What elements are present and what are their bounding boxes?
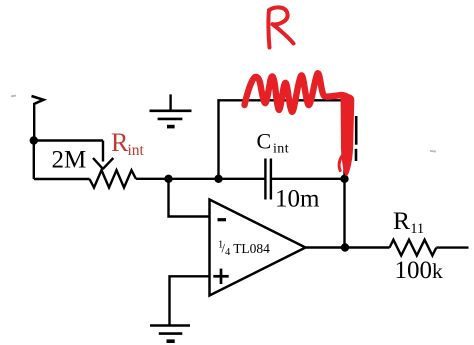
wire: input vertical into node A <box>33 103 35 141</box>
wire: wiper vertical drop <box>102 141 104 162</box>
node D junction dot <box>340 175 348 183</box>
faint artifact dash mid-right <box>430 150 436 153</box>
op-amp inverting input minus sign <box>218 218 227 221</box>
svg-text:C: C <box>257 129 272 154</box>
value label 2M <box>52 147 87 174</box>
op-amp non-inverting input plus sign <box>213 269 228 284</box>
label R11 <box>393 206 424 237</box>
wire: feedback loop (node C up, across, down to node D) <box>219 100 345 179</box>
svg-text:k: k <box>432 259 443 283</box>
label C_int <box>257 129 289 157</box>
ground (top, feedback reference) <box>150 94 192 126</box>
wire: non-inverting input to ground branch <box>170 276 210 325</box>
svg-text:4: 4 <box>225 247 231 258</box>
wire: op-amp output to output node <box>306 246 390 248</box>
ground (bottom, + input) <box>150 326 190 342</box>
svg-text:100: 100 <box>395 257 433 284</box>
wire: main node row (R_int to cap left plate) <box>136 178 265 180</box>
annotation: hand-drawn red resistor squiggle over feedback wire <box>245 73 342 111</box>
value label 100k <box>395 257 444 284</box>
wire: cap right plate to node D <box>271 178 344 180</box>
svg-text:11: 11 <box>410 221 424 237</box>
svg-text:int: int <box>273 142 289 157</box>
annotation: thick red vertical stroke <box>339 94 354 176</box>
wire: bottom of loop into resistor <box>34 178 90 180</box>
wire: node D down to output node <box>343 179 345 248</box>
annotation: hand-drawn red letter R <box>268 7 293 47</box>
node B junction dot (inverting input branch) <box>164 175 172 183</box>
capacitor C_int plates <box>265 159 271 200</box>
svg-text:R: R <box>111 128 129 157</box>
node A junction dot <box>30 136 38 144</box>
faint artifact tick top-left <box>11 95 16 98</box>
resistor R11 body (zigzag) <box>390 240 437 256</box>
resistor R_int body (2M zigzag) <box>90 170 137 187</box>
wire: node A to wiper branch (top of 2M loop) <box>34 139 103 141</box>
wire: node B to inverting input <box>169 179 210 217</box>
wire: R11 to output terminal <box>436 246 468 248</box>
output node junction dot <box>341 243 349 251</box>
node C junction dot (feedback branch) <box>214 175 222 183</box>
input arrow (signal source marker) <box>32 96 44 104</box>
svg-text:int: int <box>128 142 145 159</box>
svg-text:2M: 2M <box>52 147 87 174</box>
label 1/4 TL084 <box>218 240 270 259</box>
black dashes right of red stroke <box>355 116 358 161</box>
svg-text:R: R <box>393 206 410 235</box>
svg-text:10m: 10m <box>275 186 320 213</box>
variable resistor wiper arrow <box>93 158 113 169</box>
op-amp U1 (1/4 TL084) triangle <box>210 200 306 296</box>
svg-text:TL084: TL084 <box>233 241 270 256</box>
label R_int (red) <box>111 128 145 159</box>
value label 10m <box>275 186 320 213</box>
wire: node A down left side of 2M loop <box>33 141 35 180</box>
